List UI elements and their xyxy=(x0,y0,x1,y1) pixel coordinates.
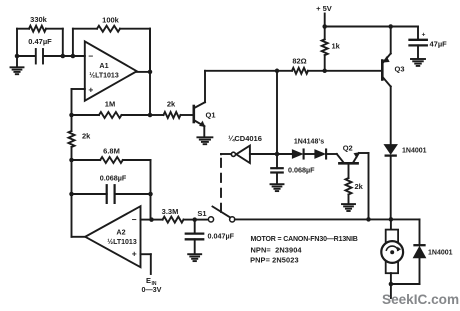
wire xyxy=(325,26,418,28)
node base Q3 tee xyxy=(322,69,327,74)
svg-text:0.47µF: 0.47µF xyxy=(28,37,52,46)
op-amp A2 xyxy=(85,206,140,267)
wire xyxy=(204,71,206,102)
svg-text:100k: 100k xyxy=(102,15,120,24)
wire xyxy=(43,55,84,57)
svg-text:2k: 2k xyxy=(167,100,176,109)
label 1k xyxy=(332,42,341,51)
label 2k vertical xyxy=(82,132,91,141)
wire xyxy=(203,126,205,136)
svg-text:1N4001: 1N4001 xyxy=(402,148,427,155)
wire xyxy=(71,160,73,194)
op-amp A1 xyxy=(85,41,137,100)
label 100k xyxy=(102,15,120,24)
svg-text:½LT1013: ½LT1013 xyxy=(107,238,137,246)
node Q2 emitter rail xyxy=(366,217,371,222)
wire xyxy=(17,55,35,57)
wire control dashed xyxy=(220,154,222,212)
resistor 2k vertical xyxy=(69,115,75,160)
svg-text:3.3M: 3.3M xyxy=(162,207,179,216)
wire xyxy=(150,194,152,220)
label Q2 xyxy=(343,144,353,153)
svg-text:2k: 2k xyxy=(355,182,364,191)
svg-text:E: E xyxy=(146,276,151,285)
ground xyxy=(411,59,425,66)
wire xyxy=(390,219,392,229)
label 1N4001 xyxy=(402,148,427,155)
wire xyxy=(205,70,277,72)
label pnp note xyxy=(250,255,299,264)
resistor 6.8M xyxy=(72,157,151,194)
node collector line tee xyxy=(275,69,280,74)
label motor note xyxy=(251,236,358,243)
buffer U1 quarter CD4016 xyxy=(231,146,250,163)
svg-text:Q2: Q2 xyxy=(343,144,353,153)
wire xyxy=(326,153,337,155)
node inverting input A1 xyxy=(71,54,76,59)
svg-text:1M: 1M xyxy=(105,100,115,109)
node 6.8M left xyxy=(69,158,74,163)
label 1N4148s xyxy=(294,138,324,145)
motor M1 CANON FN30 xyxy=(381,230,403,274)
wire xyxy=(390,87,392,145)
node A1 output xyxy=(148,70,153,75)
wire xyxy=(150,254,152,274)
wire xyxy=(72,236,86,238)
svg-text:Q1: Q1 xyxy=(205,111,215,120)
svg-text:Q3: Q3 xyxy=(395,65,405,74)
svg-text:1k: 1k xyxy=(332,42,341,51)
wire xyxy=(71,194,73,237)
label 47uF xyxy=(430,39,448,48)
label 2k xyxy=(167,100,176,109)
node A2 inverting xyxy=(149,217,154,222)
svg-text:+: + xyxy=(88,84,93,94)
transistor Q2 xyxy=(337,152,360,178)
wire xyxy=(137,71,150,73)
label Q3 xyxy=(395,65,405,74)
wire xyxy=(419,219,421,245)
resistor 3.3M xyxy=(152,217,195,223)
svg-text:½LT1013: ½LT1013 xyxy=(89,72,119,80)
svg-text:0.047µF: 0.047µF xyxy=(208,231,235,240)
wire xyxy=(277,153,292,155)
wire xyxy=(390,273,392,284)
node +5V emitter tee xyxy=(388,24,393,29)
node +5V tee xyxy=(322,24,327,29)
wire xyxy=(325,70,381,72)
svg-text:NPN= 2N3904: NPN= 2N3904 xyxy=(251,245,303,254)
node input ground junction xyxy=(15,54,20,59)
diode 1N4001 flyback xyxy=(413,245,425,284)
svg-text:0—3V: 0—3V xyxy=(142,285,162,294)
svg-text:SeekIC.com: SeekIC.com xyxy=(382,292,459,307)
wire xyxy=(368,153,370,219)
svg-text:0.068µF: 0.068µF xyxy=(100,174,127,183)
resistor 330k xyxy=(17,26,63,56)
label 0-3V xyxy=(142,285,162,294)
label npn note xyxy=(251,245,303,254)
wire xyxy=(221,153,231,155)
label 2k Q2 xyxy=(355,182,364,191)
svg-text:82Ω: 82Ω xyxy=(292,57,306,66)
wire xyxy=(390,27,392,54)
node 1M left xyxy=(69,113,74,118)
node 0.068 right xyxy=(148,192,153,197)
ground xyxy=(188,254,201,261)
wire xyxy=(195,219,209,221)
svg-text:+: + xyxy=(132,249,137,259)
wire xyxy=(250,153,277,155)
svg-text:6.8M: 6.8M xyxy=(103,146,120,155)
wire xyxy=(141,219,152,221)
ground xyxy=(271,184,284,191)
svg-text:A2: A2 xyxy=(116,227,125,236)
switch S1 xyxy=(208,207,234,222)
wire xyxy=(276,71,278,155)
label 3.3M xyxy=(162,207,179,216)
svg-text:MOTOR = CANON-FN30—R13NIB: MOTOR = CANON-FN30—R13NIB xyxy=(251,236,358,243)
label watermark xyxy=(382,292,459,307)
node 1M right xyxy=(148,113,153,118)
label 1M xyxy=(105,100,115,109)
label 0.068uF mid xyxy=(288,165,315,174)
wire xyxy=(72,88,85,90)
wire xyxy=(141,253,151,255)
wire xyxy=(304,153,315,155)
svg-text:330k: 330k xyxy=(30,15,48,24)
label 330k xyxy=(30,15,48,24)
node motor bottom xyxy=(389,282,394,287)
transistor Q3 xyxy=(382,54,390,87)
wire xyxy=(71,89,73,115)
label 6.8M xyxy=(103,146,120,155)
label 0.047uF xyxy=(208,231,235,240)
node buffer output tee xyxy=(275,152,280,157)
resistor 1M xyxy=(72,112,151,118)
resistor 2k Q2 xyxy=(346,178,352,203)
node 0.068 left xyxy=(69,192,74,197)
node 330k-cap junction xyxy=(61,54,66,59)
svg-text:S1: S1 xyxy=(197,209,206,218)
label Q1 xyxy=(205,111,215,120)
ground xyxy=(197,137,212,144)
wire xyxy=(324,14,326,27)
wire xyxy=(149,29,151,115)
label S1 xyxy=(197,209,206,218)
wire xyxy=(359,152,369,154)
diode 1N4001 xyxy=(384,145,397,220)
resistor 2k xyxy=(150,112,193,118)
label EIN xyxy=(146,276,157,287)
svg-text:PNP= 2N5023: PNP= 2N5023 xyxy=(250,255,299,264)
svg-text:−: − xyxy=(132,214,137,224)
capacitor 47uF xyxy=(410,27,427,59)
svg-text:+: + xyxy=(422,32,426,39)
transistor Q1 xyxy=(194,102,206,127)
label 0.068uF A2 xyxy=(100,174,127,183)
svg-text:1N4001: 1N4001 xyxy=(428,250,453,257)
svg-text:2k: 2k xyxy=(82,132,91,141)
wire xyxy=(391,283,420,285)
svg-text:A1: A1 xyxy=(99,61,108,70)
capacitor 0.47uF xyxy=(36,49,43,64)
label 1N4001 flyback xyxy=(428,250,453,257)
diode D2 1N4148 xyxy=(315,150,326,159)
svg-text:1N4148ʼs: 1N4148ʼs xyxy=(294,138,324,145)
resistor 100k xyxy=(73,26,150,72)
label CD4016 xyxy=(228,134,262,143)
svg-text:0.068µF: 0.068µF xyxy=(288,165,315,174)
wire xyxy=(235,218,420,220)
label 82ohm xyxy=(292,57,306,66)
node S1 tee xyxy=(192,217,197,222)
svg-text:¼CD4016: ¼CD4016 xyxy=(228,134,262,143)
wire xyxy=(390,284,392,298)
svg-text:47µF: 47µF xyxy=(430,39,448,48)
ground xyxy=(342,204,355,211)
label 0.47uF xyxy=(28,37,52,46)
capacitor 0.047uF xyxy=(186,220,203,254)
svg-text:−: − xyxy=(88,51,93,61)
node motor rail xyxy=(389,217,394,222)
resistor 82ohm xyxy=(277,68,325,74)
resistor 1k xyxy=(322,27,328,71)
diode D1 1N4148 xyxy=(292,150,303,159)
ground xyxy=(11,56,24,74)
capacitor 0.068uF xyxy=(271,154,282,184)
capacitor 0.068uF A2 xyxy=(72,185,151,203)
label +5V xyxy=(316,4,332,13)
svg-text:+ 5V: + 5V xyxy=(316,4,332,13)
